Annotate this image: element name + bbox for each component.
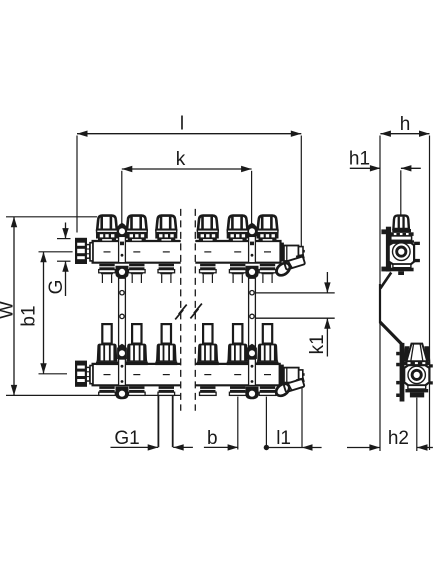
lower outlet 2: [129, 386, 146, 395]
svg-text:h: h: [400, 114, 411, 135]
upper outlet 3: [158, 264, 175, 283]
svg-text:k: k: [176, 149, 186, 170]
lower outlet 1: [99, 386, 116, 395]
dimension h2: [347, 428, 433, 451]
dimension h: [380, 114, 429, 137]
dimension G: [46, 223, 71, 297]
valve cap 5: [227, 216, 249, 242]
svg-text:h1: h1: [349, 149, 370, 170]
side rail diagonal: [380, 322, 402, 345]
union nut lower left: [76, 362, 93, 386]
valve cap 4: [197, 216, 219, 242]
dimension l1: [264, 380, 322, 451]
side extension lines: [380, 136, 430, 452]
svg-text:b1: b1: [19, 305, 40, 326]
upper right end valve: [274, 243, 305, 278]
upper outlet 6: [259, 264, 276, 283]
dimension k1: [255, 272, 335, 357]
lower outlet 5: [229, 386, 246, 395]
side rail upper: [380, 227, 391, 323]
dimension b: [204, 397, 238, 451]
lower outlet 6: [259, 386, 276, 395]
side rail lower: [396, 343, 404, 402]
lower manifold bar right piece: [195, 364, 279, 385]
flow meter 6: [257, 324, 279, 365]
mounting bracket 1: [116, 223, 129, 399]
upper outlet 1: [99, 264, 116, 283]
svg-text:b: b: [207, 428, 218, 449]
svg-text:l1: l1: [276, 428, 291, 449]
svg-text:h2: h2: [388, 428, 409, 449]
upper manifold bar right piece: [195, 241, 280, 263]
side valve assembly upper: [389, 216, 420, 275]
dimension G1: [111, 428, 193, 450]
dimension h1: [349, 149, 421, 172]
lower right end valve: [274, 365, 305, 399]
valve cap 2: [126, 216, 148, 242]
flow meter 4: [197, 324, 219, 365]
valve cap 1: [96, 216, 118, 242]
flow meter 3: [155, 324, 177, 365]
dimension b1: [19, 252, 73, 374]
flow meter 5: [227, 324, 249, 365]
upper manifold bar left piece: [93, 241, 181, 263]
upper outlet 4: [200, 264, 217, 283]
upper outlet 5: [229, 264, 246, 283]
side valve assembly lower: [403, 344, 433, 398]
valve cap 3: [155, 216, 177, 242]
break line right: [190, 209, 202, 411]
dimension l: [77, 114, 301, 247]
flow meter 1: [96, 324, 118, 365]
lower outlet 4: [200, 386, 217, 395]
svg-text:k1: k1: [307, 334, 328, 354]
lower manifold bar left piece: [93, 364, 181, 385]
lower outlet 3: [158, 386, 175, 395]
dimension W: [0, 217, 181, 396]
upper outlet 2: [129, 264, 146, 283]
svg-text:l: l: [180, 114, 184, 135]
dimension k: [122, 149, 252, 225]
valve cap 6: [257, 216, 279, 242]
svg-text:W: W: [0, 301, 18, 319]
flow meter 2: [126, 324, 148, 365]
svg-text:G1: G1: [114, 428, 139, 449]
mounting bracket 2: [246, 223, 259, 399]
svg-text:G: G: [46, 280, 67, 295]
break line left: [175, 209, 187, 411]
pipe below outlet 3: [158, 396, 172, 448]
union nut upper left: [76, 239, 93, 263]
